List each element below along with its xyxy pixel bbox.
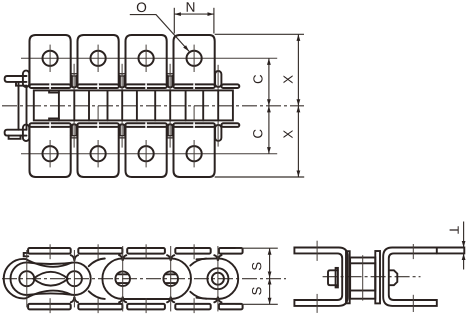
chain main centerline xyxy=(2,105,304,107)
right pin end xyxy=(390,270,398,285)
left bracket (attachment plate, end-on) xyxy=(294,248,347,306)
S top extension line xyxy=(236,247,278,249)
C lower label xyxy=(253,130,262,138)
X bottom extension line xyxy=(215,176,305,178)
bottom holes centerline (C extension) xyxy=(21,153,277,155)
X upper dimension line xyxy=(297,34,299,106)
bend foot top at joint 74 xyxy=(71,74,78,88)
inner plate right xyxy=(375,251,380,303)
bend foot bottom at joint 122 xyxy=(119,124,126,138)
outer link waist lens xyxy=(33,272,68,286)
bend foot top at joint 218 xyxy=(215,71,221,87)
left pin top bar xyxy=(5,76,27,82)
bend foot bottom at joint 170 xyxy=(167,124,174,138)
joint neck curves right xyxy=(190,259,206,299)
outer link plate (left, top view) xyxy=(27,262,75,295)
chain band outline xyxy=(34,90,233,120)
T dimension lower arrow xyxy=(463,253,465,269)
top link-plate strip row xyxy=(30,84,240,88)
left outer plate edge verticals xyxy=(18,82,20,130)
top attachment tab 4 xyxy=(174,35,215,85)
bend foot top at joint 26 xyxy=(23,71,29,87)
left inner plate xyxy=(346,251,350,303)
left pin bottom bar xyxy=(5,130,27,136)
pin 1 circle xyxy=(19,271,34,286)
right hole ticks xyxy=(412,244,414,259)
leader line for O xyxy=(130,15,189,52)
strip breaks at tab centers xyxy=(50,83,194,128)
roller (end-on) xyxy=(350,258,375,299)
outer link left outer rim arc xyxy=(4,259,26,298)
bushing circle 1 xyxy=(115,271,130,286)
attachment bar top 3 xyxy=(127,248,165,254)
plan hole center ticks (tab centers) xyxy=(50,244,194,313)
joint centerline verticals top xyxy=(74,64,218,90)
left pin top step xyxy=(16,82,27,86)
S bottom extension line xyxy=(236,303,278,305)
C lower dimension line xyxy=(268,106,270,154)
S lower dimension line xyxy=(269,278,271,304)
S upper dimension line xyxy=(269,248,271,278)
far plate waist edges xyxy=(26,259,72,298)
left hole ticks xyxy=(316,241,318,261)
attachment bar top 5 xyxy=(219,248,243,254)
outer link right end arc xyxy=(74,262,90,295)
partial tab centerline ticks in band xyxy=(97,106,99,121)
bend foot bottom at joint 26 xyxy=(23,125,29,141)
right bracket (attachment plate, end-on) xyxy=(383,248,464,306)
bottom attachment tab 3 xyxy=(126,127,167,177)
S upper label xyxy=(252,263,261,271)
bottom attachment tab 1 xyxy=(30,127,71,177)
C upper label xyxy=(253,75,262,83)
outer link left end arc xyxy=(10,262,26,295)
attachment bar bottom 3 xyxy=(127,304,165,310)
roller center tick xyxy=(362,255,364,300)
X upper label xyxy=(284,75,293,83)
attachment bar top 4 xyxy=(175,248,210,254)
attachment bar bottom 4 xyxy=(175,304,210,310)
attachment bar bottom 2 xyxy=(78,304,122,310)
inner link plate (stadium) xyxy=(102,258,191,299)
section notch top (first cell) xyxy=(49,90,59,92)
bend foot bottom at joint 74 xyxy=(71,124,78,138)
bar1 left end step xyxy=(24,253,29,256)
N dimension line xyxy=(174,13,214,15)
left pin bottom step xyxy=(9,136,21,139)
C upper dimension line xyxy=(268,58,270,106)
X top extension line xyxy=(215,33,304,35)
T dimension upper arrow xyxy=(463,222,465,248)
joint neck curves xyxy=(89,259,105,299)
X lower label xyxy=(284,130,293,138)
bottom attachment tab 2 xyxy=(78,127,119,177)
N extension lines xyxy=(173,8,175,34)
top attachment tab 3 xyxy=(126,35,167,85)
attachment bend hooks bottom xyxy=(71,297,222,302)
attachment bar top 2 xyxy=(78,248,122,254)
bottom attachment tab 4 xyxy=(174,127,215,177)
section notch bottom (first cell) xyxy=(49,118,59,120)
dimension O label xyxy=(137,2,146,12)
left pin stub xyxy=(328,270,338,285)
S lower label xyxy=(252,287,261,295)
joint centerline verticals bottom xyxy=(74,121,218,147)
prong inner line end tick xyxy=(436,248,438,254)
top holes centerline (C extension) xyxy=(21,57,277,59)
left washer xyxy=(336,268,338,288)
end view centerline xyxy=(323,276,421,278)
bushing (end-on) xyxy=(350,263,375,290)
bend foot bottom at joint 218 xyxy=(215,125,221,141)
attachment bar bottom 5 xyxy=(219,304,243,310)
pin 2 circle xyxy=(67,271,82,286)
attachment bar bottom 1 xyxy=(28,304,71,310)
right roller outer circle xyxy=(207,268,228,289)
X lower dimension line xyxy=(297,106,299,177)
T label xyxy=(450,226,459,233)
top attachment tab 1 xyxy=(30,35,71,85)
right outer link plate xyxy=(197,258,239,299)
bend foot top at joint 170 xyxy=(167,74,174,88)
band roller verticals xyxy=(59,90,218,120)
bushing circle 2 xyxy=(163,271,178,286)
attachment bar top 1 xyxy=(28,248,71,254)
plan centerline xyxy=(2,278,286,280)
attachment bend hooks top xyxy=(71,255,222,260)
top attachment tab 2 xyxy=(78,35,119,85)
plan pin center ticks xyxy=(27,246,218,311)
dimension N label xyxy=(187,2,195,11)
bottom link-plate strip row xyxy=(30,123,240,127)
right roller inner circle xyxy=(212,273,224,285)
bend foot top at joint 122 xyxy=(119,74,126,88)
